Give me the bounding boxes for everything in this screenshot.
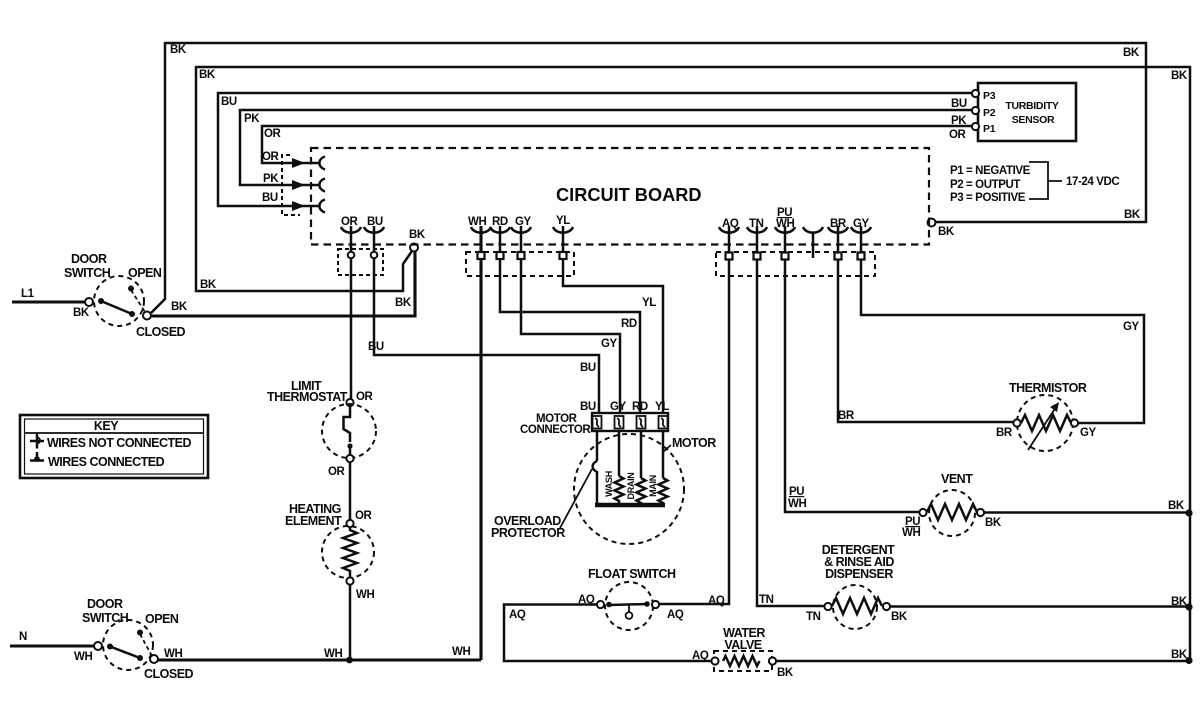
plug arrow OR — [292, 158, 305, 168]
drain winding coil — [637, 478, 646, 505]
receptacle PK — [319, 179, 325, 192]
wire BU common with overload protector gap — [596, 431, 599, 461]
svg-text:OR: OR — [356, 391, 374, 403]
wire OR between thermostat and heater — [349, 462, 352, 520]
thermistor resistor — [1021, 415, 1071, 431]
svg-text:DOOR: DOOR — [87, 597, 123, 611]
svg-text:P3: P3 — [983, 90, 996, 102]
limit thermostat top terminal — [346, 399, 353, 406]
motor dashed circle — [574, 434, 684, 544]
svg-text:P2 = OUTPUT: P2 = OUTPUT — [950, 179, 1020, 191]
vent left terminal — [919, 509, 926, 516]
SECTION: circuit board — [311, 148, 929, 245]
wire stub pin — [812, 232, 815, 258]
DS1 open contact dot — [128, 286, 134, 292]
wire AQ pin down to float switch — [659, 226, 729, 604]
SECTION: float switch — [504, 567, 725, 661]
terminal GY — [858, 253, 865, 260]
svg-text:GY: GY — [515, 216, 532, 228]
svg-text:WH: WH — [452, 646, 470, 658]
SECTION: left connector group OR/BU — [338, 216, 599, 413]
svg-text:CONNECTOR: CONNECTOR — [520, 424, 591, 436]
svg-text:MOTOR: MOTOR — [672, 436, 716, 450]
plug arrow PK — [292, 180, 305, 190]
vent coil — [927, 504, 977, 520]
main winding coil — [659, 478, 668, 505]
limit thermostat bottom terminal — [346, 455, 353, 462]
dispenser coil — [832, 598, 882, 614]
wire BK valve to right bus — [776, 660, 1189, 663]
key divider — [25, 432, 204, 434]
vent right terminal — [977, 509, 984, 516]
DS2 closed contact dot — [137, 655, 143, 661]
svg-text:WH: WH — [356, 589, 374, 601]
SECTION: middle connector group WH/RD/GY/YL — [466, 215, 663, 660]
svg-text:BU: BU — [262, 192, 278, 204]
svg-text:OPEN: OPEN — [145, 612, 179, 626]
DS2 output terminal — [150, 655, 158, 663]
svg-text:BK: BK — [1171, 649, 1188, 661]
svg-text:GY: GY — [1123, 321, 1140, 333]
junction WH heater — [346, 657, 353, 664]
dispenser dashed circle — [833, 585, 877, 629]
wire BU common lower — [596, 471, 599, 504]
svg-text:L1: L1 — [21, 288, 35, 300]
overload protector contact hook — [593, 461, 597, 472]
terminal BR — [835, 253, 842, 260]
receptacle hook GY — [851, 227, 871, 233]
receptacle OR — [319, 157, 325, 170]
DS1 blade — [101, 301, 132, 314]
turbidity sensor box — [978, 83, 1076, 141]
svg-text:BU: BU — [951, 98, 967, 110]
wire OR pin down to limit thermostat — [350, 226, 353, 399]
svg-text:PK: PK — [244, 113, 260, 125]
svg-text:P1: P1 — [983, 123, 996, 135]
wire PU-WH pin down to vent — [785, 226, 920, 512]
valve right terminal — [769, 657, 776, 664]
float ball — [626, 612, 633, 619]
heater bottom terminal — [346, 577, 353, 584]
wire GY pin down and right to motor connector — [521, 226, 620, 413]
svg-text:BK: BK — [395, 297, 412, 309]
svg-text:BU: BU — [221, 96, 237, 108]
terminal WH — [478, 252, 485, 259]
terminal GY — [518, 252, 525, 259]
wire BR pin down to thermistor — [838, 226, 1014, 422]
svg-text:GY: GY — [1080, 427, 1097, 439]
wire WH pin down to bottom rail — [479, 226, 482, 660]
dashed connector box — [716, 252, 875, 276]
svg-text:OR: OR — [341, 216, 359, 228]
heating element resistor — [343, 527, 357, 577]
wire GY pin down and around to thermistor — [861, 226, 1144, 423]
DS1 pivot terminal — [85, 298, 93, 306]
door switch DS2 dashed circle — [103, 620, 153, 670]
svg-text:TURBIDITY: TURBIDITY — [1005, 100, 1059, 112]
DS1 arm contact dot — [98, 298, 104, 304]
float right terminal — [652, 601, 659, 608]
wire YL pin down and right to motor connector — [563, 226, 663, 413]
svg-text:BR: BR — [838, 410, 855, 422]
svg-text:CIRCUIT BOARD: CIRCUIT BOARD — [556, 185, 702, 205]
wire DS1 dashed circle — [94, 276, 144, 326]
svg-text:TN: TN — [759, 594, 774, 606]
svg-text:BU: BU — [368, 341, 384, 353]
svg-text:AQ: AQ — [692, 650, 709, 662]
terminal YL — [560, 252, 567, 259]
pin glyphs — [595, 418, 665, 427]
dashed connector box — [338, 249, 383, 275]
SECTION: turbidity sensor — [949, 83, 1119, 204]
vent dashed circle — [929, 490, 975, 536]
receptacle hook AQ — [719, 227, 739, 233]
receptacle hook GY — [511, 227, 531, 233]
svg-text:YL: YL — [556, 215, 570, 227]
pin P2 terminal — [972, 107, 979, 114]
wire N lead — [10, 644, 95, 647]
DS1 output terminal — [143, 312, 151, 320]
svg-text:AQ: AQ — [667, 609, 684, 621]
svg-text:GY: GY — [610, 401, 627, 413]
SECTION: detergent dispenser — [759, 543, 1193, 629]
plug arrow BU — [292, 201, 305, 211]
wire YL winding lead — [662, 431, 665, 478]
pin GY — [615, 416, 624, 429]
svg-text:PU: PU — [789, 486, 804, 498]
SECTION: water valve — [692, 626, 1193, 679]
svg-text:AQ: AQ — [722, 218, 739, 230]
svg-text:KEY: KEY — [94, 419, 119, 433]
DS1 open position dashed path — [131, 290, 145, 312]
receptacle hook stub — [803, 227, 823, 233]
svg-text:WH: WH — [902, 527, 920, 539]
svg-text:RD: RD — [492, 216, 508, 228]
receptacle hook RD — [490, 227, 510, 233]
float stem — [628, 605, 630, 612]
svg-text:MAIN: MAIN — [648, 475, 658, 497]
symbol wires not connected — [30, 434, 44, 449]
pin P1 terminal — [972, 123, 979, 130]
float blade — [609, 604, 647, 605]
SECTION: lower door switch and WH rail — [10, 597, 481, 681]
receptacle hook OR — [341, 227, 361, 233]
svg-text:BU: BU — [367, 216, 383, 228]
svg-text:BK: BK — [409, 229, 426, 241]
svg-text:BK: BK — [1168, 500, 1185, 512]
svg-text:GY: GY — [601, 338, 618, 350]
svg-text:BK: BK — [200, 279, 217, 291]
svg-text:WH: WH — [776, 218, 794, 230]
svg-text:AQ: AQ — [578, 594, 595, 606]
receptacle hook TN — [747, 227, 767, 233]
svg-text:BK: BK — [777, 667, 794, 679]
wire RD pin down and right to motor connector — [500, 226, 640, 413]
node BK pin on circuit board bottom edge — [410, 244, 418, 252]
motor leader line — [663, 445, 671, 452]
junction valve-bus — [1185, 657, 1192, 664]
svg-text:BK: BK — [985, 517, 1002, 529]
pin YL — [659, 416, 668, 429]
svg-text:AQ: AQ — [509, 609, 526, 621]
svg-text:BK: BK — [1171, 70, 1188, 82]
svg-text:THERMOSTAT: THERMOSTAT — [267, 390, 348, 404]
svg-text:BK: BK — [171, 301, 188, 313]
svg-text:FLOAT SWITCH: FLOAT SWITCH — [588, 567, 676, 581]
key outer box — [20, 415, 208, 478]
terminal OR — [348, 252, 355, 259]
svg-text:OR: OR — [262, 151, 280, 163]
svg-text:PK: PK — [263, 173, 279, 185]
wire WH heater to bottom rail — [349, 585, 352, 660]
junction vent-bus — [1185, 509, 1192, 516]
wire BK thin branch to left loop — [196, 67, 1190, 659]
dispenser right terminal — [883, 603, 890, 610]
svg-text:AQ: AQ — [708, 595, 725, 607]
DS2 pivot terminal — [94, 642, 102, 650]
svg-text:GY: GY — [853, 218, 870, 230]
svg-text:BK: BK — [73, 307, 90, 319]
wire AQ float switch to water valve — [504, 605, 712, 662]
svg-text:SWITCH: SWITCH — [82, 611, 129, 625]
wire TN pin down to dispenser — [757, 226, 825, 606]
wire BU pin down and right to motor connector — [374, 226, 599, 413]
valve left terminal — [711, 657, 718, 664]
wire BU to turbidity P3 — [218, 93, 972, 206]
svg-text:PROTECTOR: PROTECTOR — [491, 526, 565, 540]
svg-text:BK: BK — [199, 69, 216, 81]
limit thermostat lower lead — [349, 446, 352, 455]
circuit board dashed outline — [311, 148, 929, 245]
pin RD — [637, 416, 646, 429]
terminal AQ — [726, 253, 733, 260]
svg-text:BK: BK — [1171, 596, 1188, 608]
receptacle hook PU-WH — [775, 227, 795, 233]
SECTION: limit thermostat and heating element — [267, 379, 376, 660]
svg-text:DRAIN: DRAIN — [626, 473, 636, 500]
limit thermostat switch blade — [344, 406, 351, 442]
terminal PU-WH — [782, 253, 789, 260]
svg-text:OR: OR — [264, 128, 282, 140]
wire WH bottom rail — [158, 658, 481, 661]
svg-text:WH: WH — [468, 216, 486, 228]
svg-text:17-24 VDC: 17-24 VDC — [1066, 176, 1119, 188]
svg-text:BR: BR — [996, 427, 1013, 439]
svg-text:BK: BK — [1123, 47, 1140, 59]
thermistor arrow — [1028, 407, 1056, 450]
DS2 open position dashed path — [140, 634, 152, 656]
dashed box around plugs — [282, 155, 300, 215]
wire PK to turbidity P2 — [240, 110, 972, 185]
wire OR to turbidity P1 — [262, 126, 972, 163]
limit thermostat contact dot — [347, 443, 352, 448]
SECTION: BK bus (second loop) — [151, 67, 1190, 659]
svg-text:BK: BK — [1124, 209, 1141, 221]
wire GY winding lead — [618, 431, 621, 476]
wire BK vent to right bus — [984, 511, 1189, 514]
node BK pin on circuit board right edge — [928, 219, 936, 227]
wire L1 lead — [12, 300, 86, 303]
svg-text:BR: BR — [830, 218, 847, 230]
svg-text:P3 = POSITIVE: P3 = POSITIVE — [950, 192, 1026, 204]
svg-text:YL: YL — [642, 297, 656, 309]
heater top terminal — [346, 520, 353, 527]
svg-text:SENSOR: SENSOR — [1012, 114, 1055, 126]
svg-text:PK: PK — [951, 115, 967, 127]
receptacle hook BU — [364, 227, 384, 233]
svg-text:SWITCH: SWITCH — [64, 266, 111, 280]
svg-text:DISPENSER: DISPENSER — [825, 567, 893, 581]
svg-text:WIRES CONNECTED: WIRES CONNECTED — [48, 455, 165, 469]
pin P3 terminal — [972, 90, 979, 97]
svg-text:OR: OR — [355, 510, 373, 522]
svg-text:WH: WH — [788, 498, 806, 510]
valve coil — [723, 656, 760, 666]
svg-text:VENT: VENT — [941, 472, 973, 486]
svg-text:RD: RD — [621, 318, 637, 330]
terminal BU — [371, 252, 378, 259]
svg-text:N: N — [19, 631, 27, 643]
svg-text:BK: BK — [891, 611, 908, 623]
heater dashed circle — [322, 526, 374, 578]
terminal RD — [497, 252, 504, 259]
SECTION: outer loop — [12, 43, 1146, 339]
motor connector bar — [592, 413, 668, 431]
DS2 blade — [110, 647, 140, 659]
svg-text:CLOSED: CLOSED — [144, 667, 194, 681]
svg-text:TN: TN — [806, 611, 821, 623]
wire BK thick branch to door switch — [151, 251, 415, 316]
SECTION: turbidity sensor harness — [218, 93, 972, 215]
SECTION: vent — [788, 472, 1193, 539]
svg-text:WH: WH — [164, 648, 182, 660]
receptacle hook WH — [471, 227, 491, 233]
svg-text:DOOR: DOOR — [71, 252, 107, 266]
dispenser left terminal — [824, 603, 831, 610]
SECTION: right connector group AQ/TN/PUWH/BR/GY — [659, 207, 1144, 606]
SECTION: motor — [491, 401, 716, 544]
svg-text:YL: YL — [655, 401, 669, 413]
receptacle BU — [319, 200, 325, 213]
legend bracket — [1029, 162, 1062, 199]
DS1 closed contact dot — [129, 311, 135, 317]
junction dispenser-bus — [1185, 603, 1192, 610]
svg-text:TN: TN — [749, 218, 764, 230]
motor common bus bar — [595, 503, 665, 508]
pin BU — [593, 416, 602, 429]
float switch dashed circle — [605, 582, 653, 630]
receptacle hook BR — [828, 227, 848, 233]
svg-text:OR: OR — [949, 129, 967, 141]
svg-text:BU: BU — [580, 362, 596, 374]
float right contact dot — [644, 601, 650, 607]
svg-text:CLOSED: CLOSED — [136, 325, 186, 339]
thermistor left terminal — [1013, 419, 1020, 426]
float left contact dot — [606, 602, 612, 608]
symbol wires connected — [30, 452, 44, 461]
svg-text:THERMISTOR: THERMISTOR — [1009, 381, 1087, 395]
receptacle hook YL — [553, 227, 573, 233]
dashed connector box — [466, 252, 574, 276]
svg-text:WH: WH — [324, 648, 342, 660]
svg-text:P2: P2 — [983, 107, 996, 119]
svg-text:BU: BU — [580, 401, 596, 413]
door switch DS1 (upper) — [64, 252, 186, 339]
SECTION: thermistor — [838, 321, 1140, 451]
key inner box — [25, 419, 204, 474]
wash winding coil — [615, 476, 624, 504]
svg-text:BK: BK — [938, 226, 955, 238]
thermistor dashed circle — [1017, 395, 1073, 451]
svg-text:P1 = NEGATIVE: P1 = NEGATIVE — [950, 165, 1031, 177]
water valve dashed box — [714, 651, 772, 671]
wire BK dispenser to right bus — [890, 605, 1189, 608]
overload protector leader line — [560, 469, 592, 528]
svg-text:WIRES NOT CONNECTED: WIRES NOT CONNECTED — [47, 436, 191, 450]
svg-text:RD: RD — [632, 401, 648, 413]
wire BK outer loop: door switch up over the top to turbidity return pin — [151, 43, 1146, 313]
svg-text:OPEN: OPEN — [128, 266, 162, 280]
svg-text:OR: OR — [328, 466, 346, 478]
svg-text:VALVE: VALVE — [724, 638, 761, 652]
wire RD winding lead — [640, 431, 643, 478]
DS2 arm contact dot — [107, 644, 113, 650]
SECTION: key box — [20, 415, 208, 478]
svg-text:WASH: WASH — [604, 471, 614, 497]
DS2 open contact dot — [137, 630, 143, 636]
terminal TN — [754, 253, 761, 260]
svg-text:ELEMENT: ELEMENT — [285, 514, 342, 528]
limit thermostat dashed circle — [322, 404, 376, 458]
float left terminal — [597, 601, 604, 608]
svg-text:BK: BK — [170, 44, 187, 56]
svg-text:WH: WH — [74, 651, 92, 663]
thermistor right terminal — [1071, 419, 1078, 426]
